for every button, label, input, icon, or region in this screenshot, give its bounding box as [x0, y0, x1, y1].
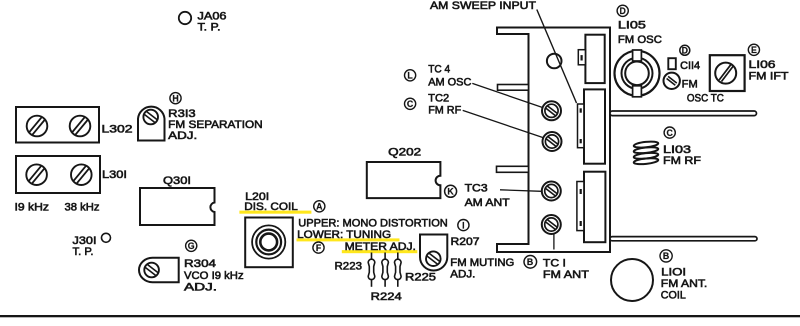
- svg-text:UPPER: MONO DISTORTION: UPPER: MONO DISTORTION: [298, 218, 448, 230]
- svg-text:TC 4: TC 4: [428, 64, 450, 76]
- svg-text:I9 kHz: I9 kHz: [15, 202, 50, 214]
- svg-text:CII4: CII4: [680, 60, 700, 72]
- svg-text:LOWER: TUNING: LOWER: TUNING: [297, 229, 391, 241]
- svg-text:R225: R225: [405, 271, 436, 283]
- svg-text:TC3: TC3: [465, 182, 488, 194]
- svg-text:FM RF: FM RF: [663, 155, 701, 167]
- svg-text:T. P.: T. P.: [198, 22, 221, 34]
- svg-text:ADJ.: ADJ.: [168, 130, 197, 142]
- svg-text:Q202: Q202: [388, 147, 421, 159]
- svg-text:ADJ.: ADJ.: [450, 268, 475, 280]
- svg-text:H: H: [172, 93, 178, 103]
- svg-text:TC I: TC I: [543, 257, 566, 269]
- svg-text:D: D: [620, 6, 626, 16]
- svg-text:AM SWEEP INPUT: AM SWEEP INPUT: [430, 0, 536, 12]
- svg-text:B: B: [527, 257, 533, 267]
- svg-text:L302: L302: [102, 124, 133, 136]
- svg-text:K: K: [447, 187, 454, 197]
- svg-text:FM ANT.: FM ANT.: [661, 278, 708, 290]
- svg-text:C: C: [667, 128, 674, 138]
- svg-text:E: E: [751, 45, 757, 55]
- svg-text:F: F: [316, 243, 322, 253]
- svg-text:LI05: LI05: [618, 20, 646, 32]
- svg-text:FM OSC: FM OSC: [618, 34, 662, 46]
- svg-text:L30I: L30I: [102, 169, 127, 181]
- svg-text:FM: FM: [682, 79, 698, 91]
- svg-text:T. P.: T. P.: [73, 246, 94, 258]
- svg-text:G: G: [188, 241, 195, 251]
- svg-text:B: B: [663, 251, 669, 261]
- svg-text:AM ANT: AM ANT: [465, 197, 510, 209]
- svg-text:I: I: [462, 220, 464, 230]
- svg-text:R223: R223: [335, 261, 363, 273]
- svg-text:R224: R224: [371, 291, 402, 303]
- svg-text:METER ADJ.: METER ADJ.: [345, 241, 416, 253]
- svg-text:38 kHz: 38 kHz: [65, 202, 100, 214]
- svg-text:FM ANT: FM ANT: [543, 269, 589, 281]
- svg-text:LI06: LI06: [749, 59, 776, 71]
- svg-text:OSC TC: OSC TC: [687, 93, 724, 105]
- svg-text:A: A: [316, 202, 323, 212]
- svg-text:FM IFT: FM IFT: [749, 71, 789, 83]
- svg-text:COIL: COIL: [661, 290, 686, 302]
- svg-text:VCO I9 kHz: VCO I9 kHz: [184, 270, 244, 282]
- svg-text:R207: R207: [451, 236, 480, 248]
- svg-text:C: C: [407, 99, 414, 109]
- svg-text:Q30I: Q30I: [163, 175, 191, 187]
- svg-text:LIOI: LIOI: [661, 266, 686, 278]
- svg-text:TC2: TC2: [428, 93, 449, 105]
- svg-text:DIS. COIL: DIS. COIL: [244, 201, 297, 213]
- svg-text:R304: R304: [184, 258, 216, 270]
- svg-text:L: L: [407, 71, 413, 81]
- svg-text:FM RF: FM RF: [428, 105, 461, 117]
- svg-text:AM OSC: AM OSC: [428, 77, 471, 89]
- svg-text:FM MUTING: FM MUTING: [450, 257, 514, 269]
- svg-text:ADJ.: ADJ.: [184, 281, 217, 293]
- svg-text:D: D: [682, 46, 688, 56]
